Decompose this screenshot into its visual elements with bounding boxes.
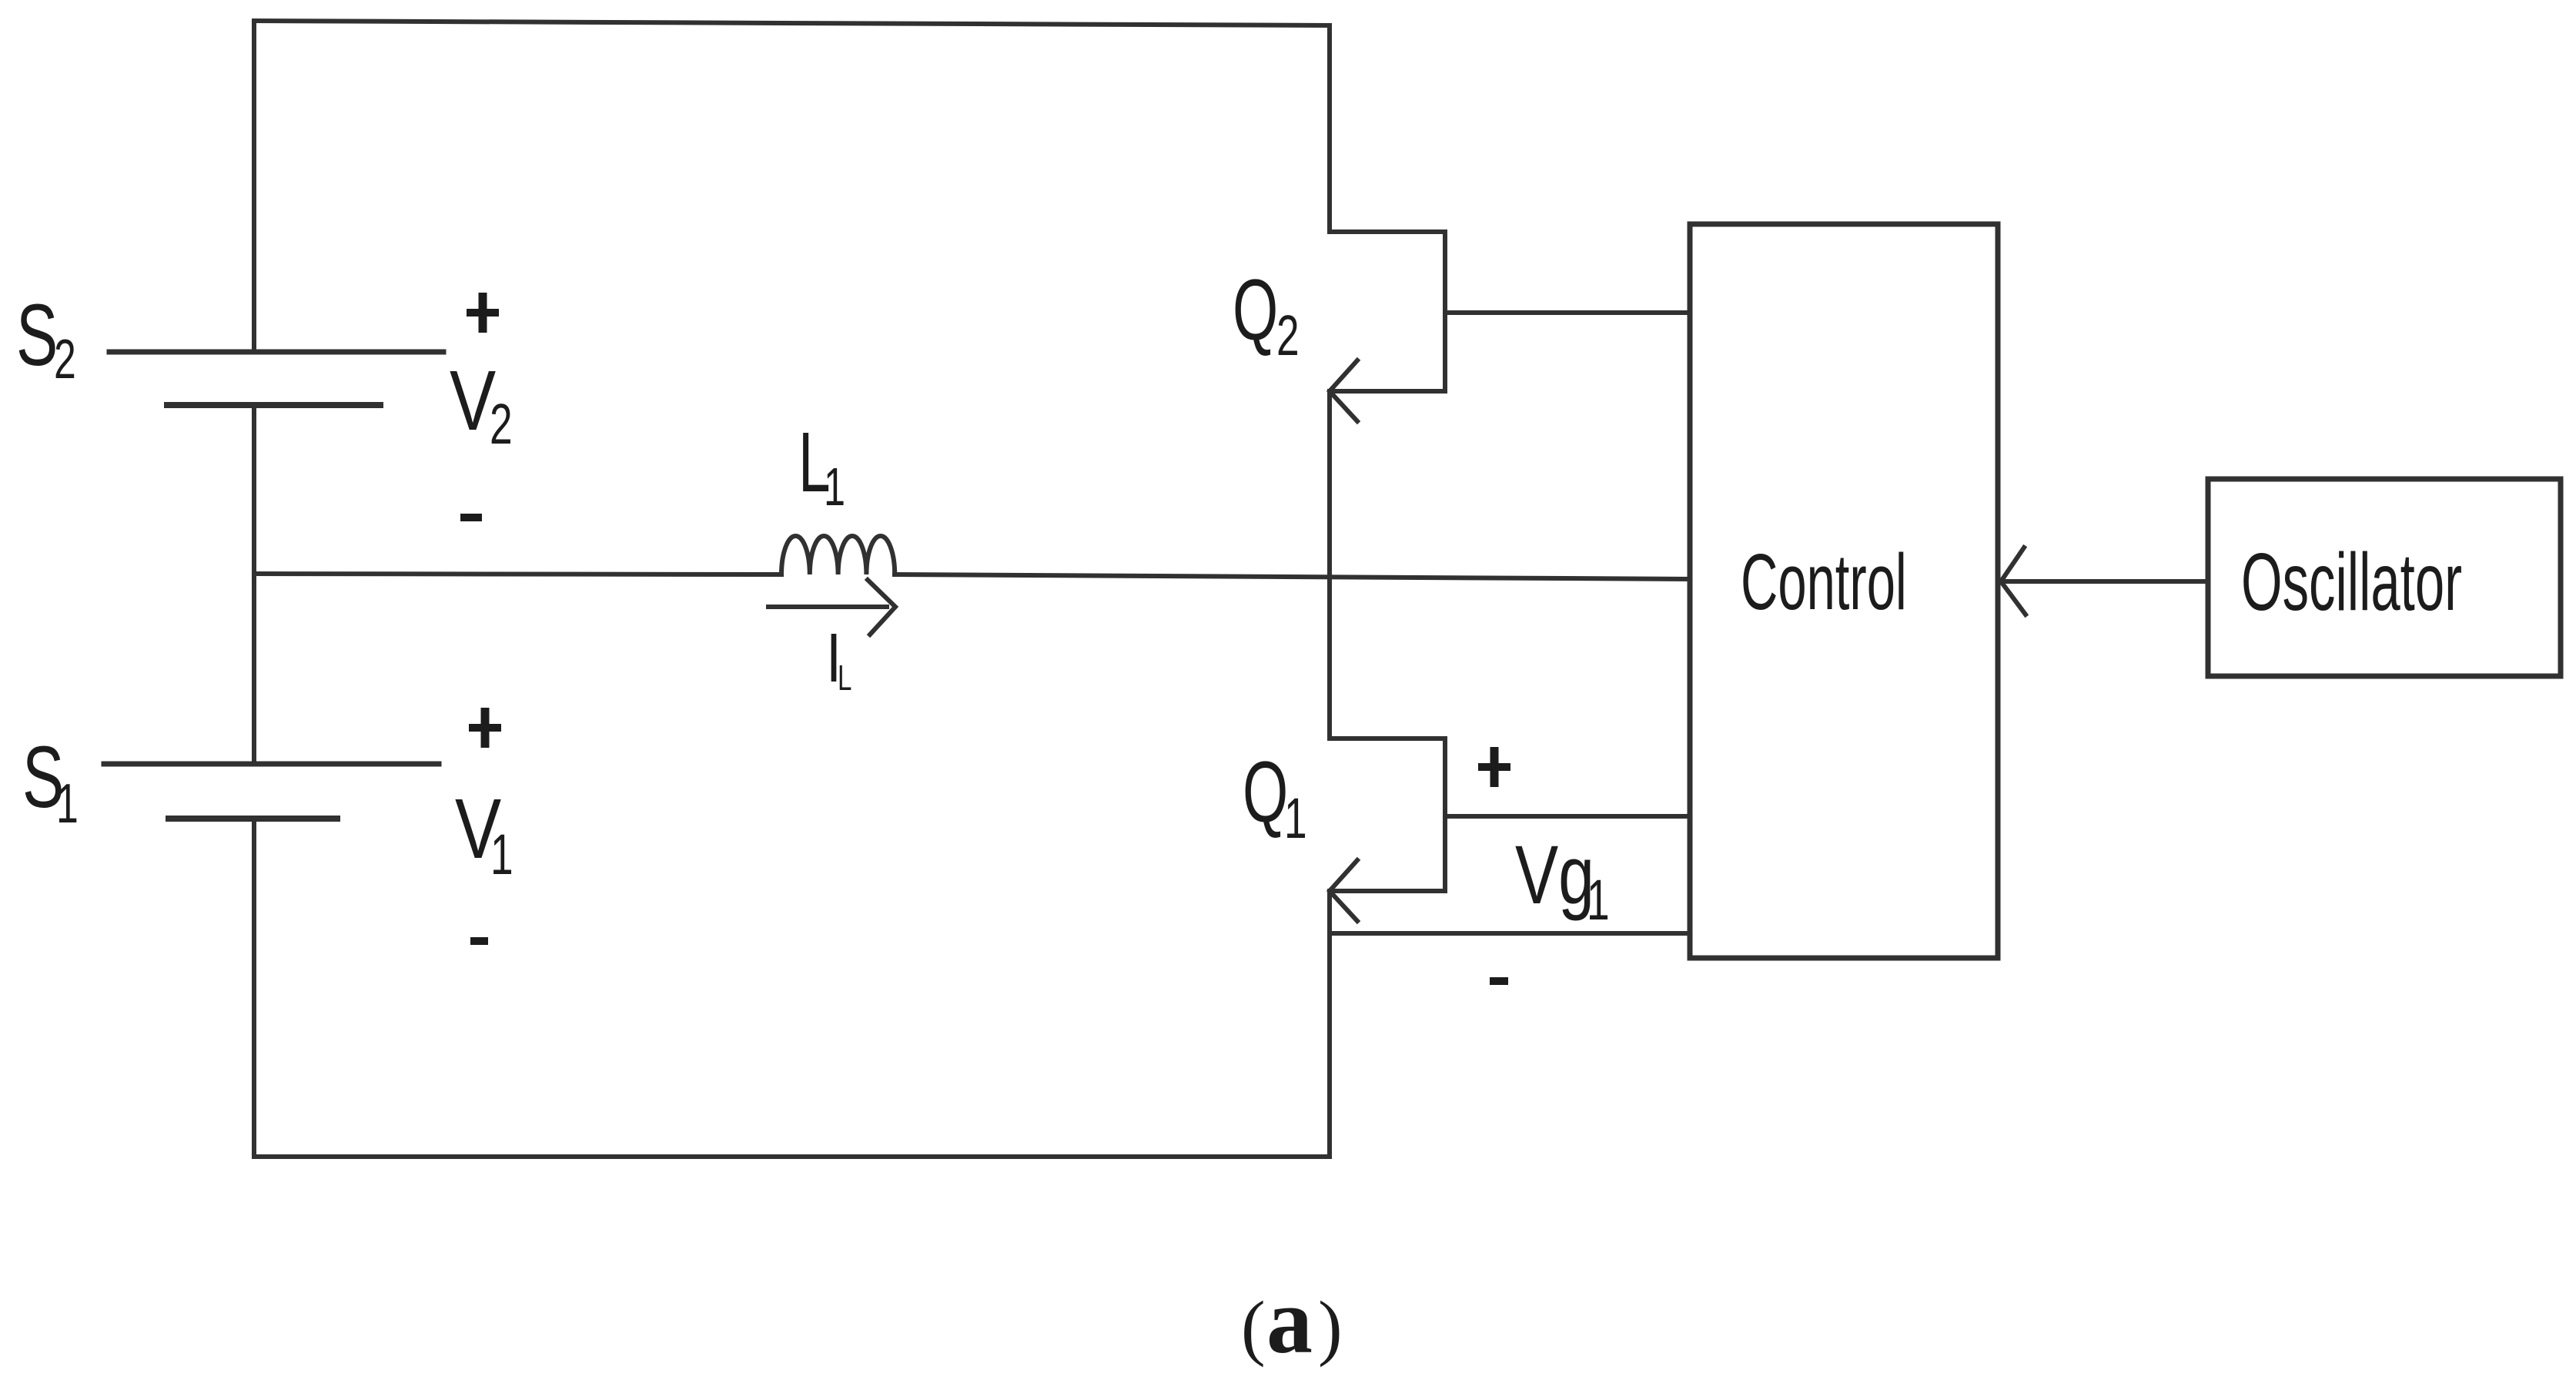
current arrow IL shaft: [768, 605, 887, 609]
battery S2 negative plate: [167, 402, 380, 408]
transistor Q1 emitter bar: [1330, 889, 1445, 893]
svg-text:Control: Control: [1741, 538, 1907, 627]
wire middle rail right of inductor: [895, 574, 1690, 579]
svg-text:a: a: [1266, 1269, 1313, 1373]
transistor Q1 step to gate bar: [1330, 736, 1445, 741]
transistor Q1 emitter arrow: [1330, 860, 1357, 921]
plus sign of V2: [467, 293, 499, 333]
wire Q1 gate to control (Vg1 plus): [1445, 814, 1690, 819]
wire left vertical upper: [252, 21, 256, 352]
svg-text:V: V: [450, 354, 496, 448]
svg-text:Vg: Vg: [1515, 828, 1594, 922]
svg-text:Q: Q: [1243, 744, 1288, 840]
wire Q1 emitter to bottom rail: [1327, 891, 1332, 1157]
wire bottom rail: [254, 1154, 1330, 1159]
svg-text:1: 1: [56, 773, 79, 835]
oscillator box: [2208, 479, 2561, 676]
current arrow IL head: [868, 580, 895, 635]
minus sign of V1: [470, 937, 488, 945]
svg-text:1: 1: [1587, 868, 1610, 932]
svg-text:S: S: [16, 286, 58, 384]
svg-text:1: 1: [1284, 786, 1307, 850]
transistor Q2 gate bar: [1443, 232, 1447, 391]
svg-text:2: 2: [490, 392, 513, 456]
wire Q2 emitter to middle rail: [1327, 391, 1332, 578]
minus sign of Vg1: [1490, 977, 1508, 985]
transistor Q2 emitter arrow: [1330, 360, 1357, 421]
svg-text:Oscillator: Oscillator: [2241, 536, 2462, 628]
svg-text:1: 1: [490, 822, 514, 886]
minus sign of V2: [460, 514, 482, 521]
svg-text:): ): [1318, 1286, 1343, 1368]
transistor Q1 collector wire: [1327, 578, 1332, 739]
svg-text:L: L: [838, 659, 851, 698]
control box: [1690, 224, 1998, 958]
transistor Q2 collector wire: [1327, 25, 1332, 232]
wire left vertical lower: [252, 819, 256, 1157]
wire top rail: [254, 21, 1330, 25]
wire Vg1 minus sense line: [1330, 931, 1690, 936]
svg-text:1: 1: [824, 457, 845, 517]
transistor Q2 emitter bar: [1330, 389, 1445, 394]
svg-text:2: 2: [1276, 303, 1300, 367]
svg-text:(: (: [1241, 1286, 1266, 1368]
wire Q2 gate to control: [1445, 310, 1690, 315]
plus sign of V1: [469, 708, 501, 748]
wire oscillator to control arrowhead: [2001, 548, 2026, 615]
inductor L1 coil: [781, 536, 895, 574]
plus sign of Vg1: [1478, 747, 1510, 787]
battery S1 positive plate: [104, 762, 439, 767]
battery S1 negative plate: [169, 816, 337, 822]
battery S2 positive plate: [109, 350, 443, 355]
transistor Q2 step to gate bar: [1330, 229, 1445, 234]
wire left vertical middle: [252, 405, 256, 764]
wire oscillator to control shaft: [2005, 579, 2208, 584]
transistor Q1 gate bar: [1443, 739, 1447, 891]
svg-text:2: 2: [54, 329, 76, 390]
svg-text:Q: Q: [1233, 262, 1278, 358]
wire middle rail: [254, 574, 781, 574]
